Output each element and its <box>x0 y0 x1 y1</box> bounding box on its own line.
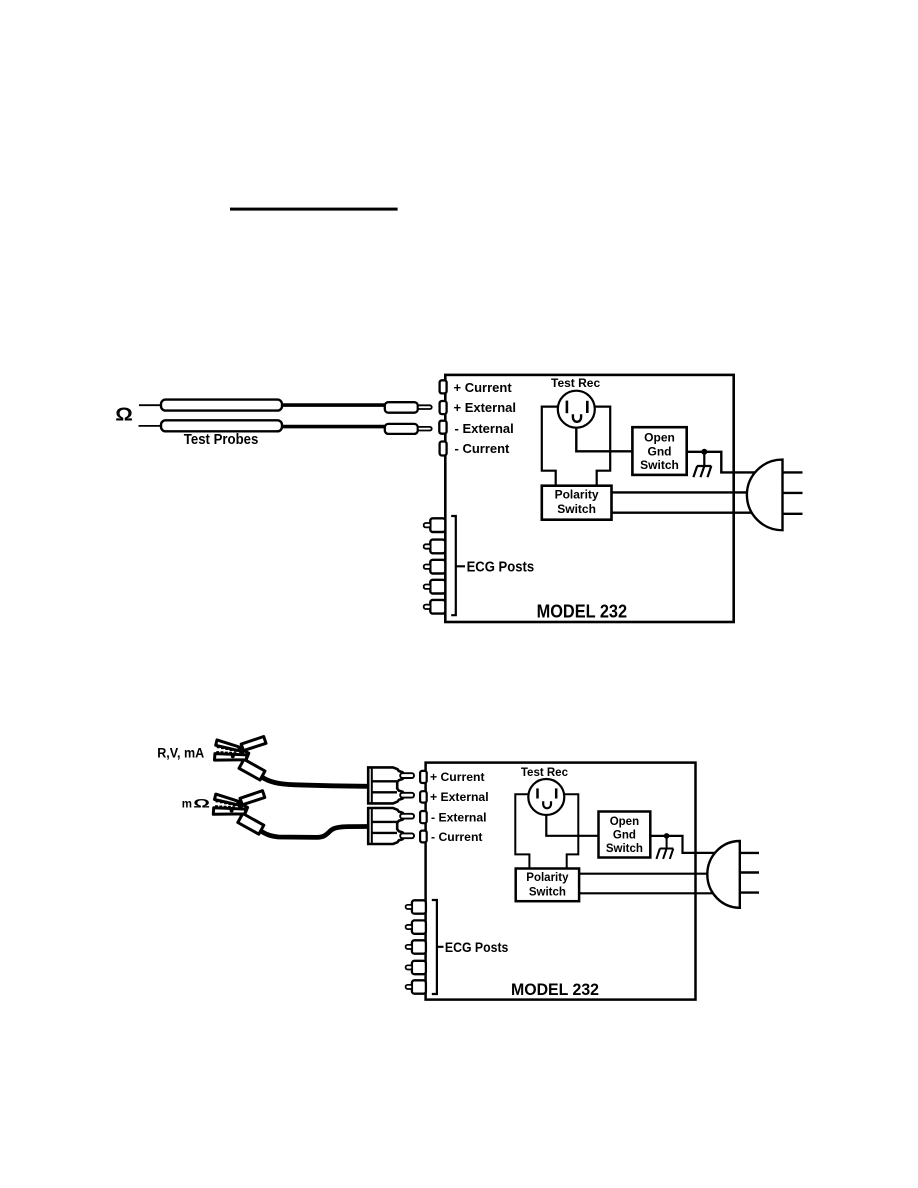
cable: clip 1 to dual banana plug <box>261 777 368 787</box>
ECG post 5 (top) <box>430 600 445 614</box>
ECG post 4 (top) <box>430 580 445 594</box>
chassis ground symbol (top) <box>693 452 711 477</box>
wire: open gnd switch to plug (bottom, with step) <box>650 836 716 853</box>
ECG posts bracket (bottom) <box>432 900 444 994</box>
svg-text:- External: - External <box>431 810 487 824</box>
svg-text:Gnd: Gnd <box>613 830 636 842</box>
ECG post 2 (top) <box>430 540 445 554</box>
svg-text:Switch: Switch <box>557 502 596 516</box>
svg-text:m: m <box>182 799 192 811</box>
dual banana plug assembly upper <box>368 767 414 803</box>
plug prong 2 (top) <box>783 492 803 494</box>
ECG post 3 (top) <box>430 560 445 574</box>
jack -External (top box) <box>439 421 446 434</box>
svg-text:R,V, mA: R,V, mA <box>157 745 204 760</box>
svg-text:Polarity: Polarity <box>526 872 569 884</box>
wire: polarity switch to plug (lower) <box>612 512 755 514</box>
svg-text:+ Current: + Current <box>454 380 513 395</box>
svg-text:MODEL 232: MODEL 232 <box>537 601 628 622</box>
power plug body (top) <box>747 460 783 531</box>
wire: receptacle right to polarity switch (bottom) <box>564 794 579 868</box>
jack +External (bottom box) <box>420 791 427 802</box>
receptacle slot left (top) <box>566 401 569 414</box>
jack +External (top box) <box>440 401 447 414</box>
plug prong 1 (top) <box>783 471 803 473</box>
wire: open gnd switch to plug (with step) <box>687 452 757 473</box>
probe 1 cable to banana plug <box>282 403 386 407</box>
svg-text:Switch: Switch <box>640 458 679 472</box>
junction dot (top) <box>701 449 707 455</box>
jack -Current (top box) <box>440 442 447 456</box>
svg-text:- Current: - Current <box>431 830 482 844</box>
ECG post 1 (top) <box>430 518 445 532</box>
receptacle slot left (bottom) <box>536 788 539 798</box>
banana plug 2 body <box>385 424 418 434</box>
polarity switch box (top) <box>542 486 612 520</box>
wire: polarity switch to plug lower (bottom) <box>580 892 715 894</box>
plug prong 3 (bottom) <box>740 891 759 893</box>
open gnd switch box (bottom) <box>599 812 651 858</box>
jack +Current (bottom box) <box>420 771 427 783</box>
wire: polarity switch to plug upper (bottom) <box>580 873 710 875</box>
polarity switch box (bottom) <box>516 869 579 902</box>
svg-text:+ External: + External <box>430 790 489 804</box>
dual banana plug assembly lower <box>368 808 414 844</box>
svg-text:Ω: Ω <box>115 405 133 425</box>
wire: receptacle left to polarity switch (bottom) <box>515 794 529 868</box>
banana plug 2 tip <box>418 427 432 431</box>
blank underline rule (top of page) <box>230 208 398 211</box>
wire: receptacle left to polarity switch <box>542 407 558 486</box>
svg-text:ECG Posts: ECG Posts <box>445 940 509 955</box>
cable: clip 2 to dual banana plug <box>260 827 368 838</box>
test probe 2 body <box>161 420 282 431</box>
power plug body (bottom) <box>707 841 740 908</box>
plug prong 3 (top) <box>783 513 803 515</box>
svg-text:MODEL 232: MODEL 232 <box>511 980 599 999</box>
receptacle ground hole (top) <box>573 414 581 422</box>
ECG posts bracket (top) <box>451 516 465 615</box>
probe 1 lead line (left) <box>139 404 162 406</box>
receptacle ground hole (bottom) <box>543 801 551 808</box>
svg-text:Open: Open <box>610 816 639 828</box>
svg-text:Test Rec: Test Rec <box>521 767 569 779</box>
svg-text:Switch: Switch <box>529 886 566 898</box>
ECG post 1 (bottom) <box>412 900 426 913</box>
wire: receptacle bottom to open gnd switch <box>576 428 632 452</box>
banana plug 1 tip <box>418 405 432 409</box>
wire: receptacle bottom to open gnd switch (bottom) <box>546 815 598 836</box>
chassis ground symbol (bottom) <box>656 836 673 859</box>
open gnd switch box (top) <box>632 427 686 475</box>
jack -Current (bottom box) <box>420 831 427 843</box>
receptacle slot right (bottom) <box>555 788 558 798</box>
svg-text:Test Rec: Test Rec <box>551 376 600 390</box>
wire: receptacle right to polarity switch <box>594 407 610 486</box>
svg-text:+ Current: + Current <box>430 770 485 784</box>
plug prong 2 (bottom) <box>740 871 759 873</box>
probe 2 cable to banana plug <box>282 425 386 429</box>
ECG post 4 (bottom) <box>412 961 426 974</box>
tester enclosure box MODEL 232 (bottom) <box>426 763 696 1000</box>
svg-text:+ External: + External <box>454 400 517 415</box>
wire: polarity switch to plug (upper) <box>612 491 751 493</box>
receptacle slot right (top) <box>586 401 589 413</box>
jack +Current (top box) <box>440 380 447 393</box>
svg-text:- Current: - Current <box>455 441 511 456</box>
ECG post 3 (bottom) <box>412 940 426 953</box>
svg-text:Gnd: Gnd <box>648 444 672 458</box>
tester enclosure box MODEL 232 (top) <box>445 375 733 622</box>
svg-text:Open: Open <box>644 431 675 445</box>
plug prong 1 (bottom) <box>740 852 759 854</box>
svg-text:Ω: Ω <box>193 797 210 810</box>
svg-text:Switch: Switch <box>606 843 643 855</box>
svg-text:Polarity: Polarity <box>555 488 599 502</box>
test receptacle circle (bottom) <box>528 779 564 815</box>
svg-text:Test Probes: Test Probes <box>184 432 258 448</box>
test receptacle circle (top) <box>558 391 595 428</box>
junction dot (bottom) <box>664 833 670 839</box>
ECG post 2 (bottom) <box>412 920 426 933</box>
probe 2 lead line (left) <box>139 425 164 427</box>
banana plug 1 body <box>385 402 418 413</box>
jack -External (bottom box) <box>420 811 427 823</box>
alligator clip 1 (R,V,mA lead) <box>215 737 267 781</box>
ECG post 5 (bottom) <box>412 980 426 993</box>
alligator clip 2 (m-ohm lead) <box>213 791 264 835</box>
svg-text:ECG Posts: ECG Posts <box>467 560 534 576</box>
test probe 1 body <box>161 400 282 411</box>
svg-text:- External: - External <box>455 421 514 436</box>
